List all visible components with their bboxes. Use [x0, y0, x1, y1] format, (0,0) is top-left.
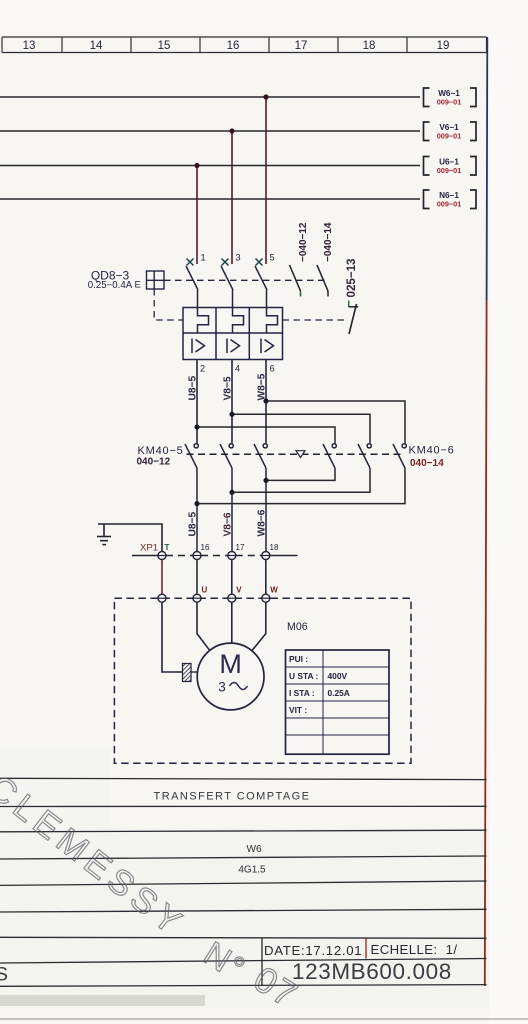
svg-text:−040−12: −040−12 — [298, 222, 309, 262]
wire phase V drop — [231, 131, 233, 264]
contactor dashed linkage line — [187, 453, 405, 455]
feed wire V to KM40-6 — [232, 414, 370, 443]
mechanical interlock triangle — [296, 451, 305, 458]
svg-text:W: W — [270, 586, 278, 595]
box terminal W — [262, 594, 270, 602]
bus U6 — [0, 165, 420, 167]
svg-text:−040−14: −040−14 — [323, 222, 334, 262]
svg-text:DATE:17.12.01: DATE:17.12.01 — [264, 943, 362, 958]
wire V to motor — [231, 602, 233, 643]
wire 16 to box — [196, 560, 198, 595]
svg-text:I STA :: I STA : — [289, 688, 315, 698]
ground symbol — [97, 524, 111, 545]
QD8 pole 5 — [255, 253, 275, 308]
net arrow N6-1 — [424, 190, 477, 209]
svg-text:17: 17 — [295, 40, 308, 52]
bus V6 — [0, 130, 420, 132]
net arrow W6-1 — [424, 88, 477, 107]
svg-text:15: 15 — [158, 40, 171, 52]
title block horizontal lines — [0, 778, 487, 986]
KM40-6 contact 3 — [393, 444, 406, 468]
QD8 pole 3 — [221, 253, 241, 308]
right page border — [486, 37, 489, 300]
wire U8-5 — [196, 360, 198, 444]
thermal element pole 2 — [233, 308, 244, 334]
magnetic trip symbol pole 1 — [192, 339, 205, 354]
svg-text:1: 1 — [201, 253, 206, 263]
feed wire U to KM40-6 — [197, 427, 335, 443]
box terminal U — [193, 594, 201, 602]
title block verticals — [261, 938, 263, 985]
wire ground to T — [98, 524, 162, 552]
junction — [263, 478, 268, 483]
QD8 actuator box — [147, 271, 165, 289]
terminal T — [158, 552, 166, 560]
svg-text:U8−5: U8−5 — [188, 512, 199, 537]
svg-text:009−01: 009−01 — [437, 200, 462, 209]
terminal 18 — [262, 552, 270, 560]
svg-text:123MB600.008: 123MB600.008 — [292, 959, 452, 984]
svg-text:M06: M06 — [287, 621, 308, 633]
feed wire W to KM40-6 — [266, 401, 405, 443]
box terminal V — [228, 594, 236, 602]
junction — [263, 398, 268, 403]
svg-text:4: 4 — [235, 364, 240, 374]
wire PE to motor frame — [162, 602, 183, 672]
svg-text:VIT :: VIT : — [289, 705, 307, 715]
motor dashed enclosure box — [114, 598, 411, 763]
motor frame earth hatch block — [183, 664, 192, 682]
svg-text:S: S — [0, 964, 8, 986]
svg-text:E: E — [135, 280, 141, 291]
svg-text:16: 16 — [201, 543, 210, 552]
crossover wire KM40-6 out 1 to W — [266, 468, 335, 480]
KM40-5 contact V — [220, 444, 233, 552]
KM40-6 contact 2 — [358, 444, 371, 468]
wire W8-5 — [265, 360, 267, 444]
junction — [194, 424, 199, 429]
junction — [229, 412, 234, 417]
svg-text:3: 3 — [218, 680, 226, 695]
svg-text:V: V — [236, 586, 242, 595]
net arrow V6-1 — [424, 122, 477, 141]
wire phase W drop — [265, 97, 267, 264]
bus W6 — [0, 96, 420, 98]
junction V on bus V6 — [229, 128, 234, 133]
svg-text:18: 18 — [363, 40, 376, 52]
svg-text:3: 3 — [236, 253, 241, 263]
svg-text:040−12: 040−12 — [137, 457, 171, 468]
svg-text:19: 19 — [437, 40, 450, 52]
junction — [194, 501, 199, 506]
svg-text:009−01: 009−01 — [437, 98, 462, 107]
dashed trip link — [154, 289, 183, 320]
terminal strip line — [132, 555, 298, 557]
motor data table — [286, 650, 390, 754]
svg-text:M: M — [219, 649, 242, 679]
wire V8-5 — [231, 360, 233, 444]
svg-text:ECHELLE: 1/: ECHELLE: 1/ — [371, 942, 458, 957]
aux contact 025-13 — [283, 258, 359, 334]
svg-text:14: 14 — [90, 40, 103, 52]
KM40-5 contact U — [185, 444, 198, 552]
motor M06 circle — [197, 643, 264, 710]
wire U to motor — [197, 602, 210, 651]
aux contact -040-12 — [290, 222, 310, 296]
thermal element pole 3 — [267, 308, 278, 334]
watermark stamp CLEMESSY — [0, 768, 306, 1017]
wire T to box (PE) — [161, 560, 163, 595]
svg-text:040−14: 040−14 — [410, 458, 444, 469]
wire phase U drop — [196, 166, 198, 265]
QD8 pole 1 — [186, 253, 206, 308]
wire 17 to box — [231, 560, 233, 595]
junction U on bus U6 — [194, 163, 199, 168]
wire W to motor — [252, 602, 266, 651]
svg-text:0.25−0.4A: 0.25−0.4A — [88, 280, 133, 291]
aux contact -040-14 — [317, 222, 334, 296]
svg-text:025−13: 025−13 — [345, 258, 358, 298]
magnetic trip symbol pole 2 — [227, 339, 240, 354]
svg-text:V8−6: V8−6 — [223, 512, 234, 536]
svg-text:TRANSFERT COMPTAGE: TRANSFERT COMPTAGE — [154, 791, 311, 803]
crossover wire KM40-6 out 3 to U — [197, 468, 405, 504]
junction W on bus W6 — [263, 94, 268, 99]
svg-text:PUI :: PUI : — [289, 654, 308, 664]
box terminal PE — [158, 594, 166, 602]
QD8 trip unit box — [183, 308, 283, 360]
svg-text:16: 16 — [227, 40, 240, 52]
KM40-5 contact W — [254, 444, 267, 552]
svg-text:U STA :: U STA : — [289, 671, 318, 681]
net arrow U6-1 — [424, 157, 477, 176]
column numbers 13-19 — [23, 40, 450, 52]
svg-text:17: 17 — [236, 543, 245, 552]
svg-text:W8−6: W8−6 — [257, 509, 268, 536]
svg-text:W8−5: W8−5 — [257, 373, 268, 400]
svg-text:009−01: 009−01 — [437, 166, 462, 175]
svg-text:400V: 400V — [328, 671, 348, 681]
terminal 17 — [228, 552, 236, 560]
svg-text:18: 18 — [270, 543, 279, 552]
breaker QD8-3 label — [88, 269, 133, 292]
bus N6 — [0, 198, 420, 200]
svg-text:W6: W6 — [247, 844, 262, 855]
terminal 16 — [193, 552, 201, 560]
svg-text:0.25A: 0.25A — [328, 688, 350, 698]
column header row — [2, 37, 487, 53]
wire 18 to box — [265, 560, 267, 595]
KM40-6 contact 1 — [323, 444, 336, 468]
svg-text:KM40−5: KM40−5 — [138, 445, 184, 457]
svg-text:KM40−6: KM40−6 — [409, 445, 455, 457]
thermal element pole 1 — [198, 308, 209, 334]
svg-text:4G1.5: 4G1.5 — [238, 865, 266, 876]
svg-text:009−01: 009−01 — [437, 132, 462, 141]
svg-text:U: U — [202, 586, 208, 595]
svg-text:2: 2 — [200, 364, 205, 374]
svg-text:T: T — [165, 543, 170, 552]
magnetic trip symbol pole 3 — [261, 339, 274, 354]
svg-text:6: 6 — [270, 364, 275, 374]
crossover wire KM40-6 out 2 to V — [232, 468, 370, 492]
svg-text:V8−5: V8−5 — [223, 376, 234, 400]
dashed control link right — [164, 279, 325, 281]
svg-text:XP1: XP1 — [140, 543, 158, 554]
svg-text:U8−5: U8−5 — [188, 376, 199, 401]
svg-text:13: 13 — [23, 40, 36, 52]
svg-text:5: 5 — [270, 253, 275, 263]
junction — [229, 490, 234, 495]
page edge shading — [0, 995, 205, 1006]
